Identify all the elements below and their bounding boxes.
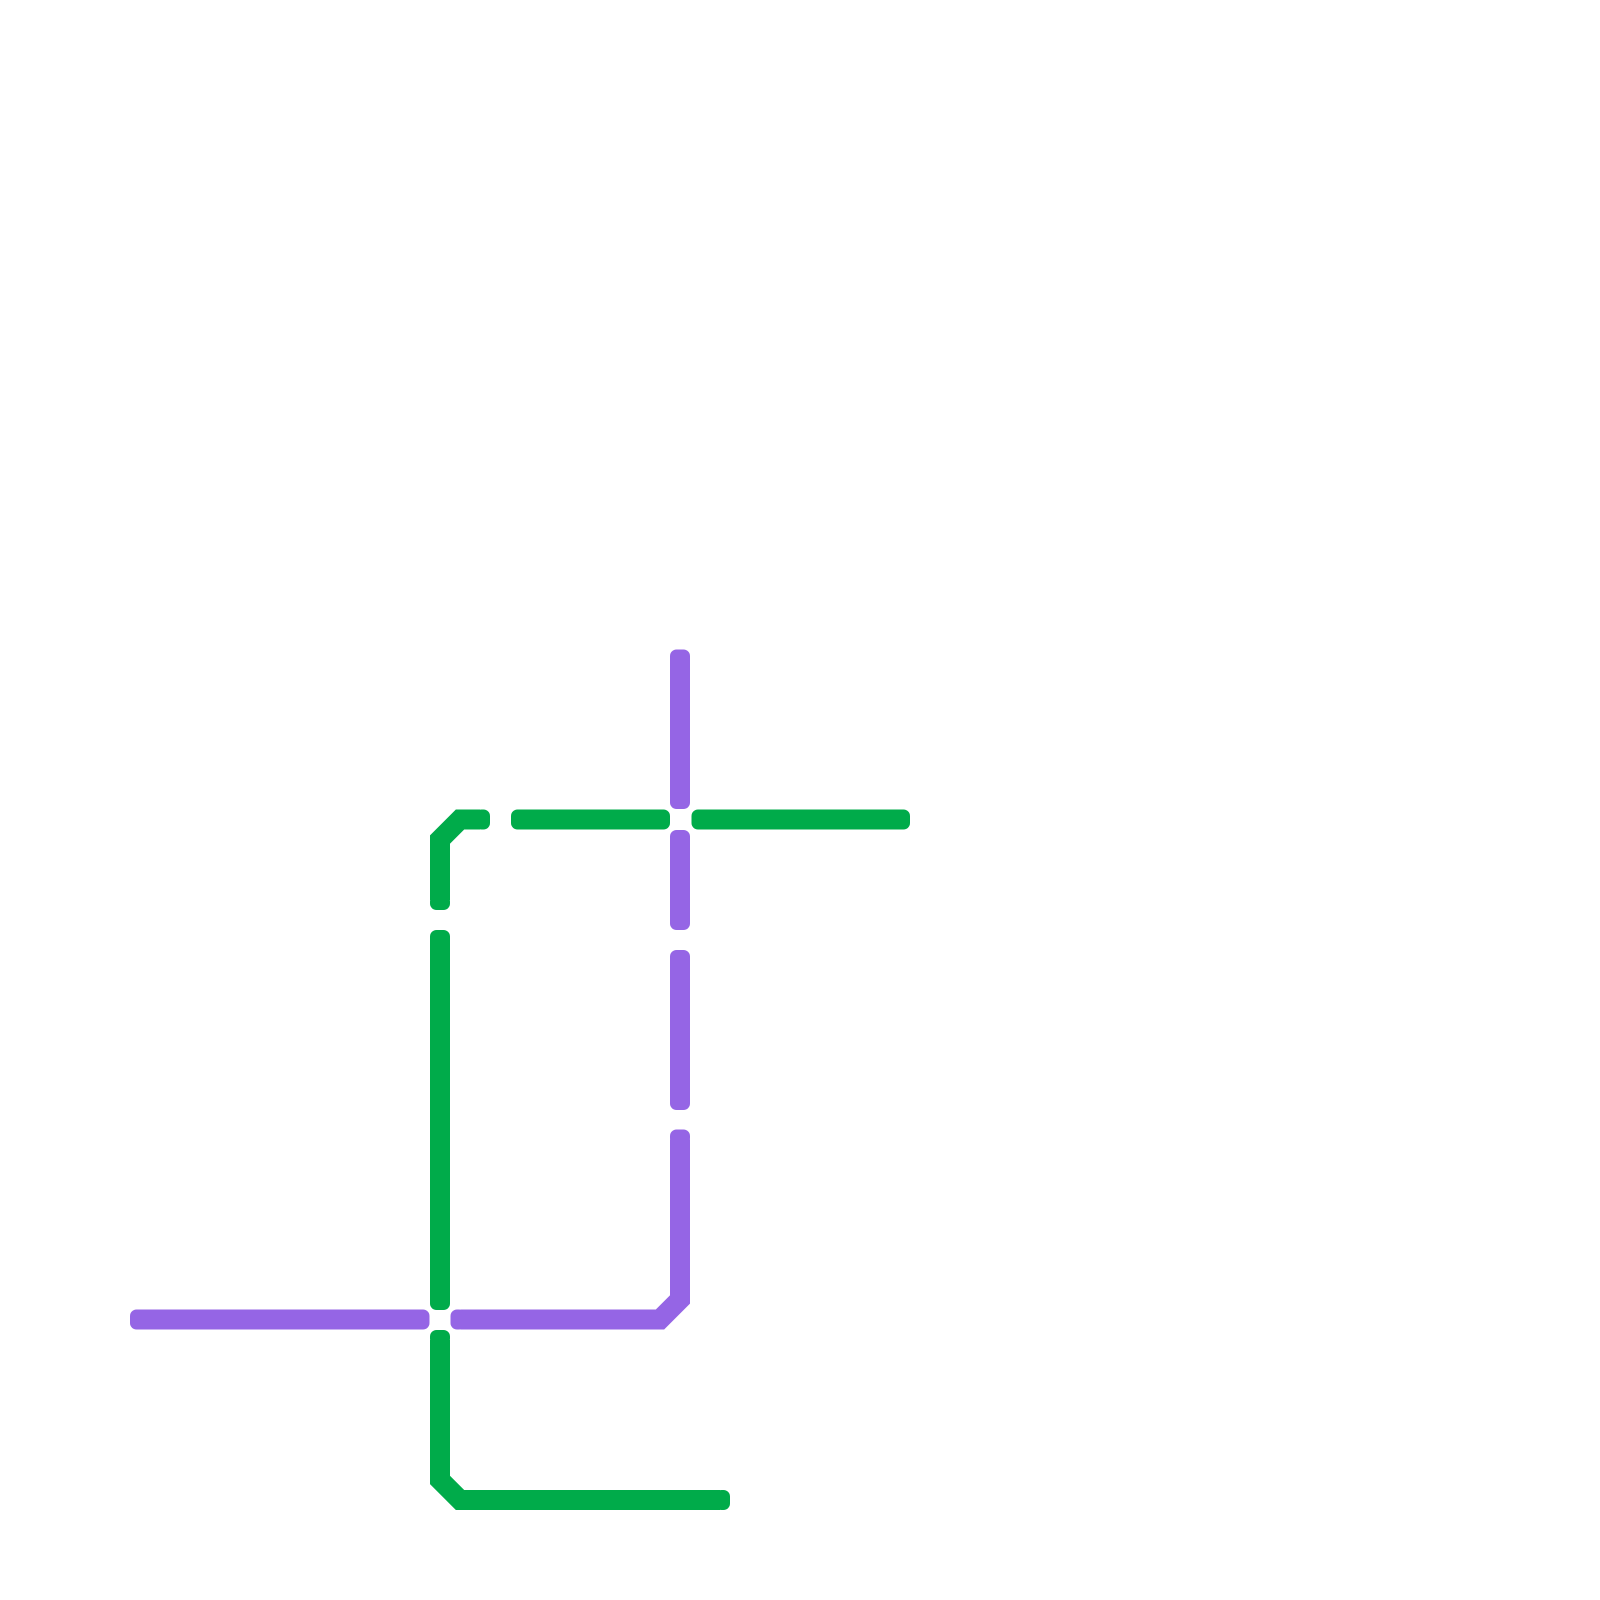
green line: top-left corner dash (horizontal + 45-deg bend + vertical) <box>430 810 490 911</box>
green line: left vertical long dash <box>430 930 450 1310</box>
purple transit line <box>130 650 690 1330</box>
purple line: horizontal left dash <box>130 1310 430 1330</box>
purple line: vertical middle dash <box>670 950 690 1110</box>
green line: horizontal dash left of purple crossing <box>511 810 670 830</box>
purple line: vertical dash below green crossing <box>670 830 690 930</box>
purple line: top vertical dash <box>670 650 690 810</box>
green transit line <box>430 810 910 1511</box>
purple line: corner dash (vertical + 45-deg bend + horizontal) <box>451 1130 691 1330</box>
green line: horizontal dash right of purple crossing <box>692 810 911 830</box>
green line: bottom corner segment (vertical + 45-deg bend + horizontal) <box>430 1330 730 1510</box>
